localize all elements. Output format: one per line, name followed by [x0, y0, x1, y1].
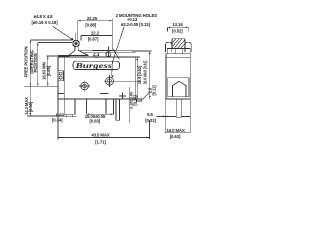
- free position reference line: [30, 39, 72, 41]
- dimension 22.2: [81, 30, 112, 41]
- side lever plate: [167, 48, 190, 53]
- dim line free position: [30, 40, 31, 116]
- svg-text:[ø0.19 X 0.19]: [ø0.19 X 0.19]: [31, 20, 58, 25]
- operating position reference line: [38, 42, 72, 44]
- extension line through hole right: [111, 19, 113, 49]
- dim 43.5 MAX: [58, 99, 150, 145]
- side body: [166, 57, 190, 99]
- mounting hole left: [79, 80, 90, 91]
- leader to roller from hole note: [53, 27, 74, 41]
- svg-text:22.2: 22.2: [91, 30, 100, 35]
- svg-text:5.5: 5.5: [147, 112, 153, 117]
- svg-text:[0.56]: [0.56]: [28, 101, 33, 112]
- svg-text:22.25: 22.25: [87, 16, 98, 21]
- svg-text:[0.88]: [0.88]: [85, 23, 96, 28]
- terminal tip reference line: [27, 115, 64, 117]
- plunger: [69, 47, 89, 56]
- svg-text:POSITION: POSITION: [33, 53, 38, 72]
- body inner horizontal line center: [100, 92, 109, 94]
- extension line right of terminal 3: [129, 87, 131, 123]
- side plunger lines: [174, 48, 176, 53]
- svg-text:Burgess: Burgess: [74, 62, 112, 70]
- side terminal profile: [173, 81, 186, 97]
- terminal 2: [106, 99, 114, 114]
- dim 5.5: [145, 112, 166, 123]
- dim 8.63 under terminal 1: [52, 113, 77, 123]
- svg-text:43.5 MAX: 43.5 MAX: [91, 133, 110, 138]
- lever bar on body top: [80, 47, 136, 58]
- roller: [73, 40, 80, 47]
- top-left raised rib: [58, 55, 70, 57]
- svg-text:+0.13: +0.13: [127, 17, 138, 22]
- center cross mark: [119, 93, 126, 100]
- svg-text:[0.34]: [0.34]: [52, 118, 63, 123]
- leader from mounting holes note to right hole: [112, 27, 124, 78]
- right dim 15.9 body height: [135, 57, 142, 99]
- side dim 13.16: [167, 22, 188, 33]
- left end detail box: [58, 71, 64, 81]
- side dim 16.0 MAX: [165, 99, 191, 139]
- svg-text:15.9 [0.63]: 15.9 [0.63]: [137, 65, 142, 84]
- svg-text:16.0 MAX: 16.0 MAX: [166, 128, 185, 133]
- svg-text:[0.11]: [0.11]: [152, 85, 157, 96]
- Burgess logo: [73, 61, 119, 70]
- svg-text:[0.65]: [0.65]: [46, 65, 51, 76]
- svg-text:FREE POSITION: FREE POSITION: [23, 47, 28, 78]
- dim 2.8 ticks: [136, 85, 156, 103]
- lever diagonal line: [112, 48, 119, 60]
- svg-text:[0.52]: [0.52]: [172, 29, 183, 34]
- svg-text:[0.13]: [0.13]: [132, 95, 137, 106]
- dimension 22.25: [75, 16, 112, 41]
- svg-text:[1.71]: [1.71]: [95, 140, 106, 145]
- svg-text:ø4.8 X 4.8: ø4.8 X 4.8: [34, 14, 54, 19]
- front view: switch body outline: [58, 57, 141, 99]
- baseline: [24, 85, 58, 87]
- terminal 3: [116, 99, 120, 120]
- svg-text:20.6 MAX [0.81]: 20.6 MAX [0.81]: [142, 60, 147, 84]
- svg-text:13.16: 13.16: [172, 22, 183, 27]
- side bottom terminal: [176, 99, 181, 117]
- dim 15.00: [85, 100, 114, 124]
- side roller end view: [172, 39, 185, 49]
- side window: [168, 78, 189, 97]
- svg-text:[0.22]: [0.22]: [145, 118, 156, 123]
- right dim 20.6 MAX: [135, 51, 151, 99]
- lower reference line: [46, 55, 69, 57]
- svg-text:ø3.2-0.05 [0.13]: ø3.2-0.05 [0.13]: [121, 22, 151, 27]
- svg-text:[0.63]: [0.63]: [170, 134, 181, 139]
- svg-text:[0.63]: [0.63]: [89, 118, 100, 123]
- mounting hole right: [104, 77, 141, 85]
- dim line operating position: [37, 43, 38, 87]
- side lever ears: [166, 42, 192, 52]
- terminal 1: [64, 99, 75, 114]
- body inner horizontal line left: [58, 93, 64, 95]
- dim line 16.63: [47, 56, 48, 86]
- body inner vertical line: [63, 57, 65, 99]
- svg-text:[0.87]: [0.87]: [88, 36, 99, 41]
